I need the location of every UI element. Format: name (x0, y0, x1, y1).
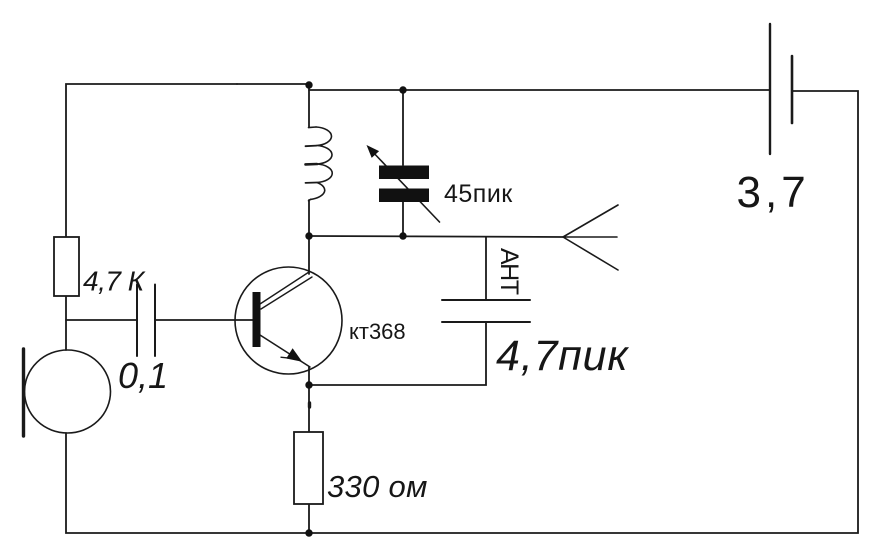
svg-text:4,7пик: 4,7пик (496, 332, 629, 380)
svg-text:45пик: 45пик (444, 180, 513, 208)
svg-text:330 ом: 330 ом (327, 469, 428, 504)
svg-text:0,1: 0,1 (118, 355, 168, 396)
svg-text:кт368: кт368 (349, 319, 406, 344)
svg-text:3,7: 3,7 (737, 168, 810, 217)
svg-text:4,7 К: 4,7 К (83, 266, 146, 297)
svg-text:АНТ: АНТ (495, 248, 523, 295)
